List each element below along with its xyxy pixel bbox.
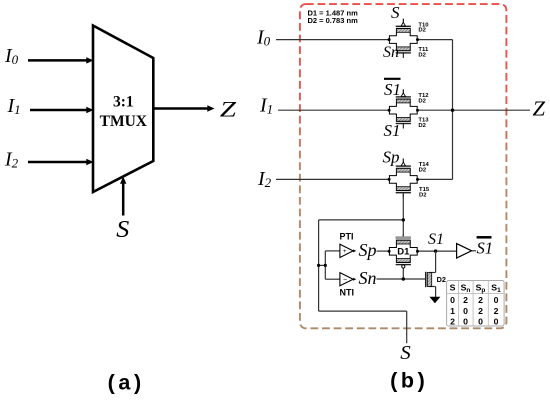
svg-text:0: 0 bbox=[494, 295, 499, 305]
svg-text:−: − bbox=[343, 277, 347, 284]
svg-text:S: S bbox=[450, 283, 456, 293]
svg-text:Sp: Sp bbox=[383, 148, 400, 167]
svg-text:S1: S1 bbox=[384, 121, 401, 140]
svg-text:S1: S1 bbox=[428, 231, 444, 248]
svg-text:D2: D2 bbox=[418, 28, 426, 34]
svg-text:D2: D2 bbox=[419, 168, 427, 174]
svg-text:1: 1 bbox=[450, 306, 455, 316]
svg-text:(b): (b) bbox=[390, 368, 428, 392]
svg-text:Sn: Sn bbox=[359, 268, 377, 288]
svg-text:S1: S1 bbox=[384, 80, 401, 99]
svg-text:S: S bbox=[400, 343, 411, 364]
svg-text:S: S bbox=[116, 217, 129, 243]
svg-text:D2: D2 bbox=[418, 98, 426, 104]
svg-text:Sp: Sp bbox=[359, 240, 377, 260]
svg-text:2: 2 bbox=[478, 295, 483, 305]
svg-text:PTI: PTI bbox=[340, 232, 354, 242]
svg-text:I1: I1 bbox=[259, 95, 273, 117]
svg-text:3:1: 3:1 bbox=[113, 94, 134, 111]
svg-text:S1: S1 bbox=[477, 239, 494, 258]
svg-text:2: 2 bbox=[494, 306, 499, 316]
svg-text:2: 2 bbox=[450, 317, 455, 327]
svg-text:I0: I0 bbox=[256, 27, 271, 49]
svg-text:2: 2 bbox=[478, 306, 483, 316]
svg-text:NTI: NTI bbox=[340, 288, 355, 298]
svg-text:Sn: Sn bbox=[383, 44, 399, 61]
svg-text:TMUX: TMUX bbox=[100, 113, 148, 130]
svg-text:2: 2 bbox=[463, 295, 468, 305]
svg-text:0: 0 bbox=[478, 317, 483, 327]
svg-text:D2: D2 bbox=[418, 123, 426, 129]
svg-text:(a): (a) bbox=[108, 370, 145, 394]
svg-text:0: 0 bbox=[450, 295, 455, 305]
svg-text:D2: D2 bbox=[418, 52, 426, 58]
svg-text:0: 0 bbox=[463, 317, 468, 327]
svg-text:D2: D2 bbox=[437, 275, 446, 284]
svg-text:I2: I2 bbox=[4, 149, 19, 171]
svg-text:D2: D2 bbox=[419, 192, 427, 198]
svg-text:+: + bbox=[343, 249, 347, 255]
svg-text:Z: Z bbox=[220, 96, 237, 121]
svg-text:0: 0 bbox=[494, 317, 499, 327]
svg-text:I1: I1 bbox=[7, 95, 21, 117]
svg-text:D1: D1 bbox=[397, 247, 410, 258]
svg-text:0: 0 bbox=[463, 306, 468, 316]
svg-text:S: S bbox=[391, 3, 400, 22]
svg-text:I0: I0 bbox=[4, 45, 19, 67]
svg-text:D2 = 0.783 nm: D2 = 0.783 nm bbox=[308, 16, 359, 25]
svg-text:Z: Z bbox=[533, 97, 546, 121]
svg-text:I2: I2 bbox=[257, 168, 272, 190]
